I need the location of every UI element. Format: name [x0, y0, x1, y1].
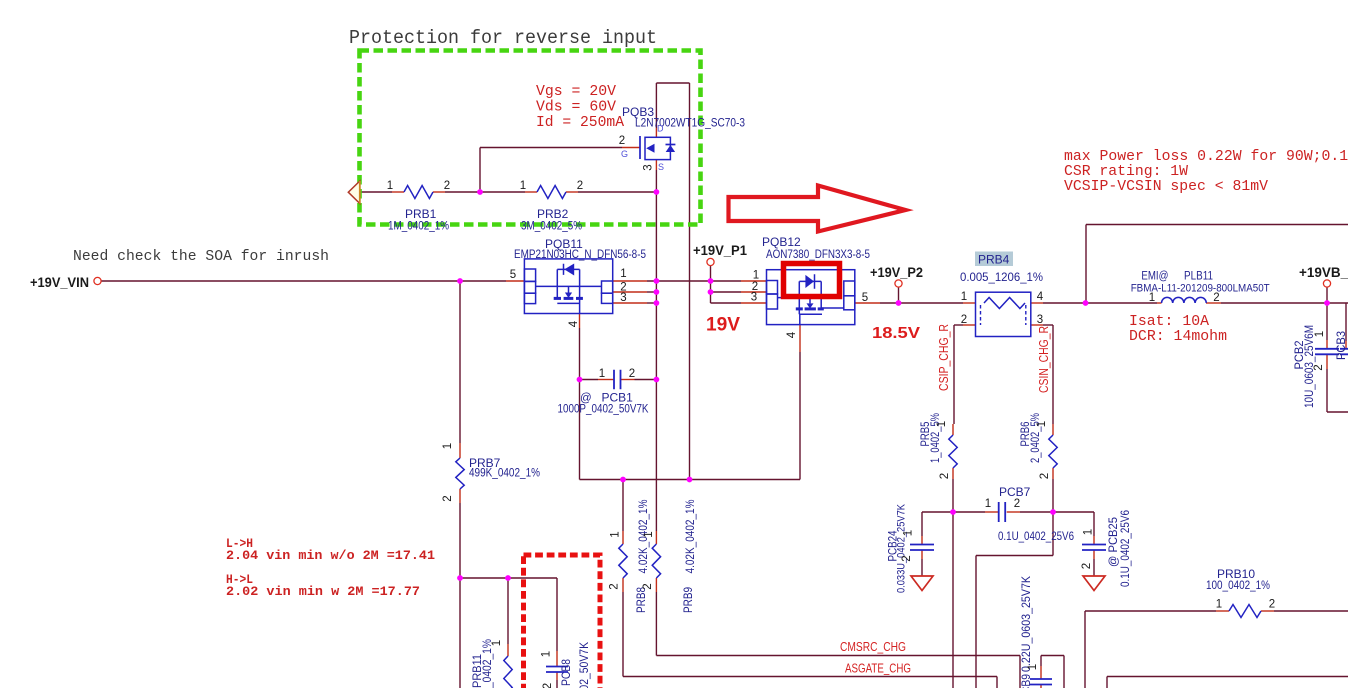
svg-text:1: 1: [985, 498, 991, 510]
svg-text:1: 1: [1083, 529, 1095, 535]
svg-text:VCSIP-VCSIN spec < 81mV: VCSIP-VCSIN spec < 81mV: [1064, 179, 1268, 195]
svg-text:CMSRC_CHG: CMSRC_CHG: [840, 640, 906, 654]
svg-text:2.02 vin min w 2M =17.77: 2.02 vin min w 2M =17.77: [226, 584, 420, 599]
svg-text:+19V_VIN: +19V_VIN: [30, 275, 89, 290]
svg-text:1: 1: [491, 640, 503, 646]
svg-text:2: 2: [642, 583, 654, 589]
svg-text:Isat: 10A: Isat: 10A: [1129, 314, 1209, 330]
svg-text:1: 1: [599, 368, 605, 380]
svg-text:5: 5: [510, 269, 516, 281]
svg-text:PRB4: PRB4: [978, 253, 1010, 267]
svg-text:2: 2: [961, 314, 967, 326]
svg-text:499K_0402_1%: 499K_0402_1%: [469, 468, 540, 480]
svg-text:CSIN_CHG_R: CSIN_CHG_R: [1037, 326, 1051, 393]
svg-text:4.02K_0402_1%: 4.02K_0402_1%: [685, 500, 697, 574]
svg-text:0.1U_0402_25V6: 0.1U_0402_25V6: [998, 531, 1074, 543]
svg-text:PCB1: PCB1: [602, 391, 634, 405]
svg-text:Vds = 60V: Vds = 60V: [536, 100, 616, 116]
svg-text:DCR: 14mohm: DCR: 14mohm: [1129, 329, 1227, 345]
svg-text:ASGATE_CHG: ASGATE_CHG: [845, 662, 911, 676]
svg-text:2: 2: [609, 583, 621, 589]
svg-text:1_0402_5%: 1_0402_5%: [930, 413, 942, 463]
svg-text:CSIP_CHG_R: CSIP_CHG_R: [937, 324, 951, 391]
svg-text:18.5V: 18.5V: [872, 325, 920, 342]
svg-text:2: 2: [619, 135, 625, 147]
svg-text:1: 1: [1314, 331, 1326, 337]
svg-text:2.04 vin min w/o 2M =17.41: 2.04 vin min w/o 2M =17.41: [226, 548, 435, 563]
svg-text:1: 1: [610, 531, 622, 537]
svg-text:+19V_P1: +19V_P1: [693, 243, 747, 258]
svg-text:1000P_0402_50V7K: 1000P_0402_50V7K: [558, 404, 649, 416]
svg-text:1: 1: [1149, 292, 1155, 304]
svg-text:3: 3: [751, 292, 757, 304]
svg-text:PCB8: PCB8: [559, 659, 573, 686]
svg-text:+19V_P2: +19V_P2: [870, 265, 923, 280]
svg-text:3: 3: [620, 292, 626, 304]
svg-text:Need check the SOA for inrush: Need check the SOA for inrush: [73, 248, 329, 265]
svg-text:2_0402_5%: 2_0402_5%: [1030, 413, 1042, 463]
svg-text:0.005_1206_1%: 0.005_1206_1%: [960, 272, 1043, 284]
svg-text:100_0402_1%: 100_0402_1%: [1206, 580, 1270, 592]
svg-text:D: D: [657, 124, 664, 134]
svg-text:1: 1: [1027, 664, 1039, 670]
svg-text:CSR rating: 1W: CSR rating: 1W: [1064, 164, 1188, 180]
svg-text:EMP21N03HC_N_DFN56-8-5: EMP21N03HC_N_DFN56-8-5: [514, 249, 646, 261]
svg-text:2: 2: [1269, 599, 1275, 611]
svg-text:PCB3: PCB3: [1334, 331, 1348, 360]
svg-text:Id = 250mA: Id = 250mA: [536, 115, 624, 131]
svg-text:PRB10: PRB10: [1217, 567, 1255, 581]
svg-text:0.22U_0603_25V7K: 0.22U_0603_25V7K: [1021, 576, 1033, 672]
svg-text:3: 3: [1037, 314, 1043, 326]
svg-text:0.033U_0402_25V7K: 0.033U_0402_25V7K: [896, 503, 908, 593]
svg-text:1: 1: [903, 530, 915, 536]
svg-text:AON7380_DFN3X3-8-5: AON7380_DFN3X3-8-5: [766, 249, 870, 261]
svg-text:S: S: [658, 162, 664, 172]
svg-text:PCB7: PCB7: [999, 485, 1031, 499]
svg-text:1: 1: [442, 443, 454, 449]
svg-text:2: 2: [939, 473, 951, 479]
svg-text:L2N7002WT1G_SC70-3: L2N7002WT1G_SC70-3: [635, 118, 745, 130]
svg-text:4: 4: [1037, 291, 1044, 303]
svg-text:1: 1: [936, 421, 948, 427]
svg-text:1: 1: [520, 180, 526, 192]
svg-text:1: 1: [1216, 599, 1222, 611]
svg-text:4: 4: [568, 320, 580, 327]
svg-text:2: 2: [442, 495, 454, 501]
svg-text:1: 1: [620, 268, 626, 280]
svg-text:0.1U_0402_25V6: 0.1U_0402_25V6: [1120, 510, 1132, 587]
svg-text:PRB1: PRB1: [405, 207, 437, 221]
svg-text:5: 5: [862, 292, 868, 304]
svg-text:1: 1: [643, 531, 655, 537]
svg-text:2: 2: [542, 683, 554, 688]
svg-text:2: 2: [1313, 364, 1325, 370]
svg-text:EMI@: EMI@: [1141, 271, 1168, 283]
svg-text:PRB9: PRB9: [681, 587, 695, 613]
svg-text:1: 1: [541, 651, 553, 657]
svg-text:3M_0402_5%: 3M_0402_5%: [521, 221, 582, 233]
svg-text:2: 2: [1014, 498, 1020, 510]
svg-text:2: 2: [629, 368, 635, 380]
svg-text:Protection for reverse input: Protection for reverse input: [349, 27, 657, 49]
svg-text:+19VB_CHG: +19VB_CHG: [1299, 265, 1348, 280]
svg-text:PRB2: PRB2: [537, 207, 569, 221]
svg-text:1M_0402_1%: 1M_0402_1%: [388, 221, 449, 233]
svg-text:@ PCB25: @ PCB25: [1106, 517, 1120, 567]
svg-text:1: 1: [961, 291, 967, 303]
svg-text:2: 2: [1081, 563, 1093, 569]
svg-text:G: G: [621, 149, 628, 159]
svg-text:1: 1: [753, 270, 759, 282]
svg-text:Vgs = 20V: Vgs = 20V: [536, 84, 616, 100]
svg-text:1000P_0402_50V7K: 1000P_0402_50V7K: [579, 642, 591, 688]
svg-text:PQB12: PQB12: [762, 235, 801, 249]
svg-text:3: 3: [643, 164, 655, 170]
svg-text:2: 2: [1213, 292, 1219, 304]
svg-text:2: 2: [577, 180, 583, 192]
svg-text:19V: 19V: [706, 314, 740, 336]
svg-text:4: 4: [786, 331, 798, 338]
svg-text:2: 2: [1039, 473, 1051, 479]
svg-text:PCB9: PCB9: [1019, 674, 1033, 688]
svg-text:2: 2: [901, 555, 913, 561]
svg-text:max Power loss 0.22W for 90W;0: max Power loss 0.22W for 90W;0.12: [1064, 149, 1348, 165]
svg-text:1: 1: [1036, 421, 1048, 427]
svg-text:1: 1: [387, 180, 393, 192]
svg-text:2: 2: [444, 180, 450, 192]
svg-text:PLB11: PLB11: [1184, 271, 1213, 283]
